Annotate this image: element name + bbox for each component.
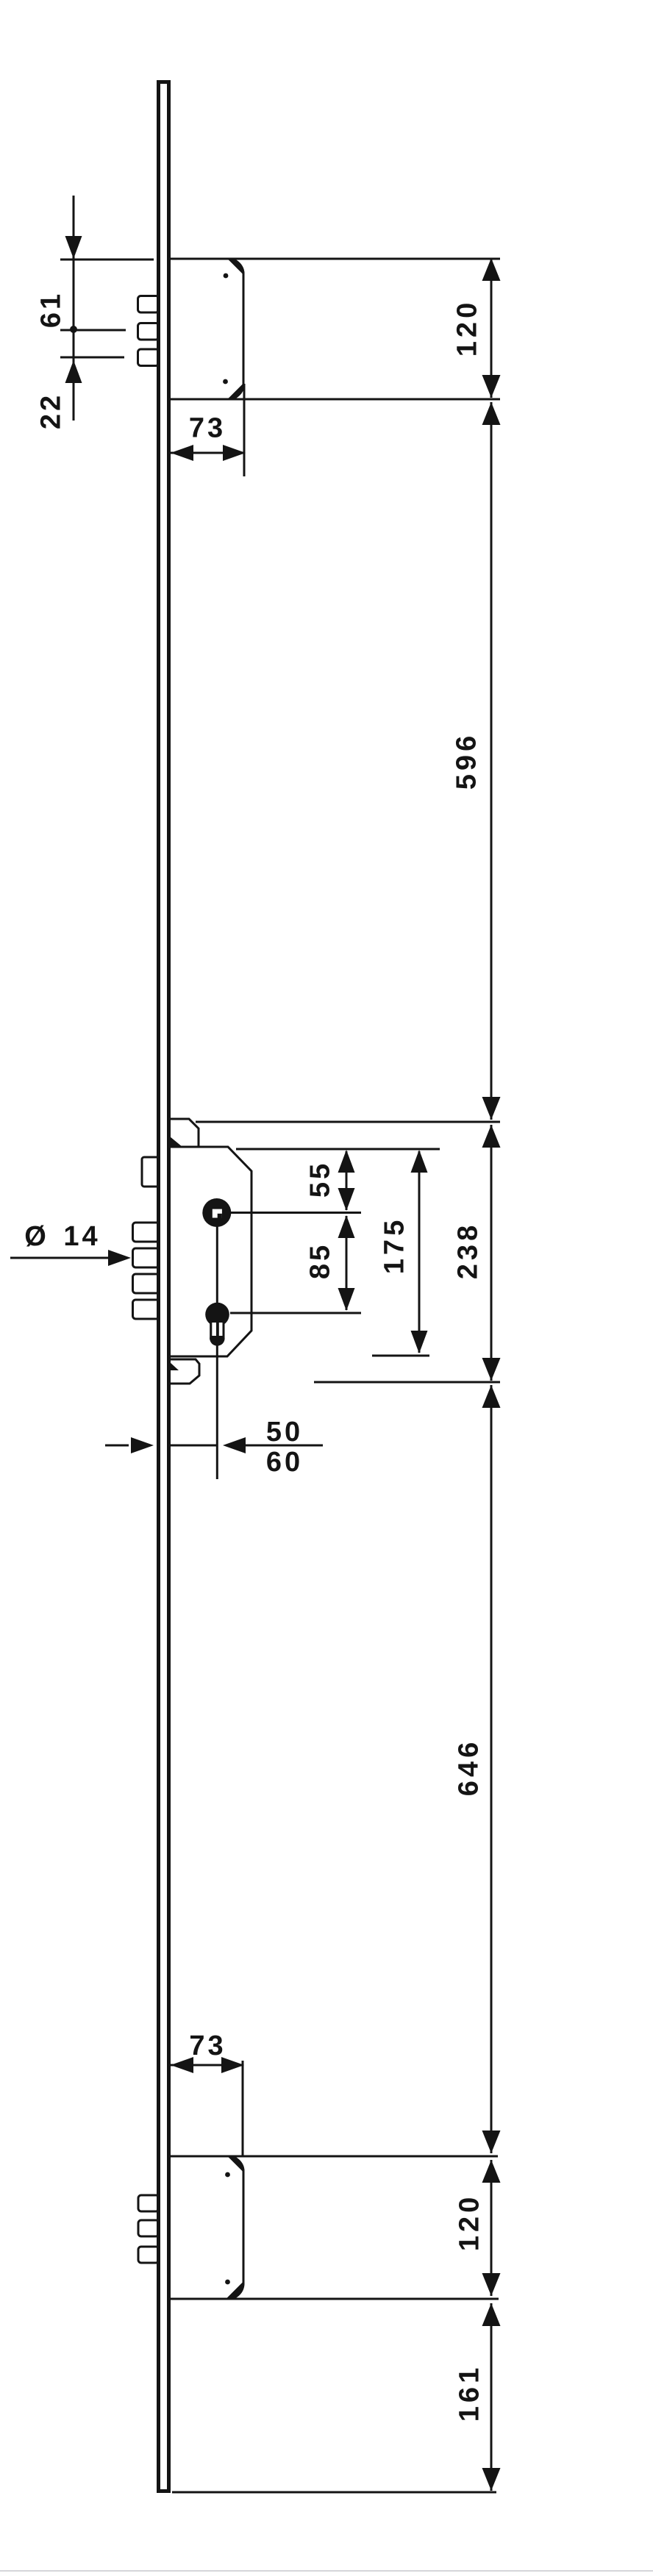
central lock latch	[142, 1157, 160, 1187]
follower hole	[202, 1198, 231, 1227]
scan edge line	[0, 2570, 653, 2572]
svg-text:120: 120	[454, 2194, 485, 2251]
extension line faceplate bottom	[172, 2491, 496, 2494]
top lock case	[170, 258, 244, 400]
svg-text:238: 238	[453, 1222, 484, 1279]
extension tick 175 bottom	[372, 1355, 429, 1357]
follower center line	[230, 1212, 361, 1214]
extension line top lock top edge	[170, 258, 500, 260]
bottom lock case	[170, 2155, 244, 2299]
dim 175	[418, 1151, 421, 1353]
extension line central bottom	[314, 1381, 500, 1384]
svg-text:22: 22	[36, 393, 67, 429]
extension line top lock bottom edge	[170, 398, 500, 401]
dim 73 top	[243, 384, 246, 476]
svg-text:646: 646	[454, 1739, 485, 1796]
dim 50-60 backset	[105, 1445, 129, 1447]
svg-text:175: 175	[379, 1217, 410, 1274]
extension tick left top	[60, 259, 154, 261]
dim 73 bottom	[242, 2061, 244, 2156]
dim 161	[490, 2303, 493, 2491]
svg-text:50: 50	[266, 1417, 303, 1448]
cylinder center line	[230, 1312, 361, 1314]
svg-text:596: 596	[452, 732, 482, 790]
svg-text:85: 85	[305, 1242, 336, 1279]
extension line 55 top	[236, 1148, 440, 1151]
bottom lock latch bolts	[138, 2195, 159, 2263]
central lock case	[170, 1147, 251, 1356]
dim 85	[346, 1216, 348, 1310]
svg-text:161: 161	[454, 2364, 485, 2422]
dim 55	[346, 1151, 348, 1210]
central lock top tab	[170, 1119, 199, 1147]
svg-text:Ø 14: Ø 14	[24, 1221, 100, 1252]
central lock bottom tab	[170, 1359, 199, 1384]
extension line bottom lock bottom edge	[170, 2298, 499, 2300]
line 61 bottom	[60, 329, 126, 332]
svg-text:73: 73	[189, 2031, 226, 2061]
dim 120 bottom	[490, 2160, 493, 2296]
top lock screw dots	[224, 273, 229, 279]
extension line bottom lock top edge	[170, 2155, 498, 2158]
dim 646	[490, 1385, 493, 2153]
svg-text:73: 73	[189, 413, 226, 444]
line 22 bottom	[60, 357, 124, 359]
hole axis line	[216, 1220, 218, 1479]
dim 238	[490, 1125, 493, 1381]
dim 596	[490, 402, 493, 1120]
faceplate	[159, 82, 169, 2491]
svg-text:55: 55	[305, 1161, 336, 1198]
cylinder	[205, 1303, 229, 1327]
bottom lock screw dots	[225, 2172, 230, 2178]
svg-text:60: 60	[266, 1447, 303, 1478]
svg-text:61: 61	[36, 291, 67, 328]
svg-text:120: 120	[452, 299, 483, 357]
dim 61-22 vertical line	[73, 196, 75, 421]
top lock latch bolts	[138, 296, 160, 366]
dim diameter 14	[10, 1257, 110, 1259]
central lock pins	[133, 1223, 160, 1319]
extension line central top	[196, 1121, 500, 1123]
dim 120 top	[490, 259, 493, 398]
